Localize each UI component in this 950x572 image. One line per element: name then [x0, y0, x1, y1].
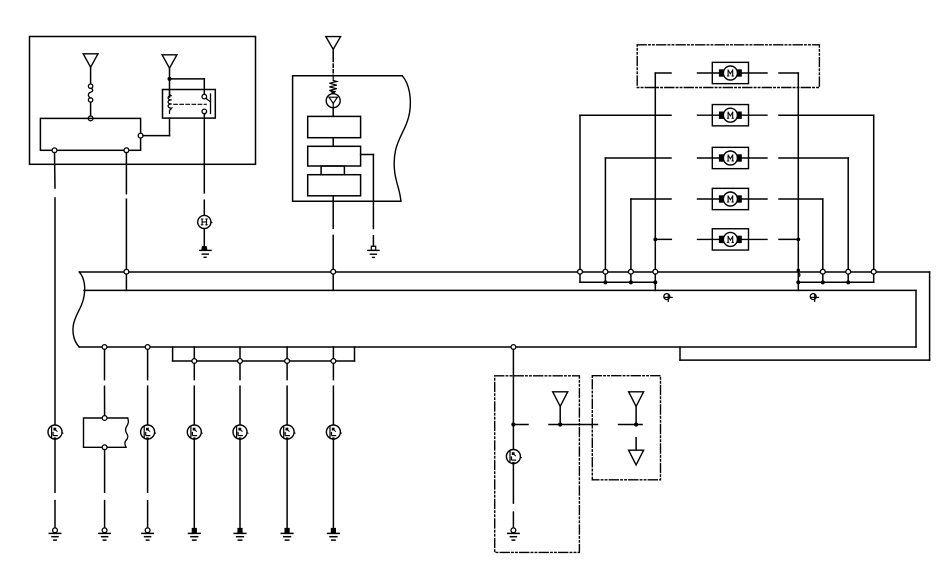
wire: bulb to ground (x=513) [512, 464, 514, 528]
wire segment (right unit row) [619, 424, 642, 426]
comb terminal circle [192, 359, 197, 364]
wire x=240 lower [239, 439, 241, 528]
wire: M4 left stub [631, 198, 671, 200]
comb terminal circle [238, 359, 243, 364]
harness top line [79, 271, 929, 273]
strip dot [653, 280, 657, 284]
terminal circle (sub-box top) [88, 116, 93, 121]
wire: triangle to row [559, 406, 561, 424]
frame ground symbol G (right) [810, 294, 818, 302]
wire: dot to bulb (x=513) [512, 427, 514, 450]
motor symbol (blower) [326, 94, 340, 108]
strip dot [796, 280, 800, 284]
relay armature link [206, 98, 210, 101]
comb tooth [286, 347, 288, 359]
relay coil [168, 90, 172, 114]
wire stub right of dot [513, 424, 528, 426]
wire: triangle to breaker [90, 67, 92, 84]
wire: M2 left stub [580, 114, 671, 116]
junction dot (x=560) [558, 422, 562, 426]
comb tooth [193, 347, 195, 359]
bulb/socket (x=55) [48, 425, 63, 440]
wire: block3 to harness [332, 196, 334, 270]
wire segment (switch row) [549, 424, 598, 426]
wire: M1 right stub [779, 72, 798, 74]
relay contact (bottom) [202, 109, 207, 115]
bulb/socket (x=194) [187, 425, 202, 440]
motor M1 (power window) [698, 62, 768, 83]
connector circle (x=580) [578, 269, 583, 274]
junction strip (right group) [798, 281, 873, 283]
relay box [163, 90, 216, 119]
frame ground symbol G (left) [664, 294, 672, 302]
dashed wire into blower box [332, 59, 334, 76]
wire x=333 upper [332, 363, 334, 425]
comb connector frame [173, 347, 355, 361]
wire x=194 upper [193, 363, 195, 425]
comb tooth [239, 347, 241, 359]
harness step [679, 347, 681, 360]
tick x=580 [579, 274, 581, 282]
connector circle (x=655) [653, 269, 658, 274]
wire x=104 upper [104, 349, 106, 415]
vertical wire x=874 [873, 115, 875, 269]
harness inner right edge [915, 290, 917, 347]
wire: motor to block1 [332, 108, 334, 117]
circuit breaker [88, 84, 92, 102]
wire: to inner line (x=333) [332, 274, 334, 290]
power triangle (switch box) [553, 392, 568, 407]
power feed triangle (blower) [326, 37, 341, 50]
combination switch / control unit box (top-left) [30, 37, 256, 165]
tick x=874 [873, 274, 875, 282]
motor M4 [698, 188, 768, 209]
harness outer right edge [929, 272, 931, 360]
wire: M5 left stub [655, 238, 671, 240]
ground (x=513, ring terminal) [508, 528, 519, 540]
control block 2 [308, 146, 361, 166]
wire x=287 lower [286, 439, 288, 528]
wire below dot (broken) [635, 438, 637, 451]
harness torn left edge [73, 272, 85, 347]
wire: M4 right stub [779, 198, 823, 200]
terminal circle (unit bottom) [102, 445, 107, 450]
tick x=631 [630, 274, 632, 282]
motor M2 [698, 105, 768, 126]
ground (x=240) [234, 528, 246, 540]
terminal circle (sub-box right edge) [138, 133, 143, 138]
connector circle (x=874) [871, 269, 876, 274]
vertical wire x=823 [822, 199, 824, 269]
dash-dot enclosure (motor 1) [637, 45, 819, 88]
wire x=287 upper [286, 363, 288, 425]
junction dot (x=513) [511, 422, 515, 426]
wire: triangle to junction [169, 68, 171, 79]
wire: harness to switch (x=513) [512, 349, 514, 424]
motor M5 [698, 229, 768, 250]
strip dot [846, 280, 850, 284]
junction dot [168, 77, 172, 81]
terminal circle (sub-box bottom left) [52, 148, 57, 153]
sub-unit box [40, 118, 140, 150]
dash-dot box (switch assembly) [495, 376, 580, 553]
harness inner line [84, 289, 916, 291]
blower unit box (torn right edge) [293, 76, 411, 202]
wire x=194 lower [193, 439, 195, 528]
wire stub below triangle [332, 49, 334, 57]
wire x=55 lower [54, 439, 56, 528]
wire x=333 lower [332, 439, 334, 528]
vertical wire x=580 [579, 115, 581, 269]
vertical wire x=655 [654, 73, 656, 269]
wire: breaker to sub-box [90, 102, 92, 116]
wire: M2 right stub [779, 114, 874, 116]
wire: M3 left stub [605, 157, 671, 159]
ground (horn) [200, 247, 211, 258]
connector circle (x=848) [846, 269, 851, 274]
wire: junction to contact [170, 79, 205, 95]
control block 1 [308, 116, 361, 137]
connector circle (x=333 on harness) [331, 269, 336, 274]
wire: junction to relay coil [169, 79, 171, 97]
bulb/socket (x=240) [233, 425, 248, 440]
dash-dot box (right unit) [592, 376, 660, 480]
wire: to horn (below box) [203, 164, 205, 215]
wire: triangle to row [635, 406, 637, 424]
harness outer bottom line [680, 359, 930, 361]
terminal circle (unit top) [102, 416, 107, 421]
vertical wire x=605 [604, 158, 606, 269]
wire: sub-box to harness (x=126) [125, 153, 127, 270]
junction dot (M5 right) [796, 238, 800, 242]
junction dot (M5 left) [653, 238, 657, 242]
horn H [198, 215, 212, 228]
tick x=823 [822, 274, 824, 282]
wire: horn to ground [203, 229, 205, 247]
out-arrow triangle (down) [629, 450, 644, 465]
wire x=148 upper [147, 349, 149, 425]
wire: relay contact down [203, 114, 205, 165]
wire: M1 left stub [655, 72, 671, 74]
tick x=655 [654, 274, 656, 290]
wire: ground drop below box [372, 201, 374, 246]
wire: block2 to ground drop [361, 155, 374, 202]
connector circle (x=126 on harness) [124, 269, 129, 274]
connector circle (x=513 on harness bottom) [511, 345, 516, 350]
connector circle (x=148 on harness bottom) [145, 345, 150, 350]
junction dot (x=636) [634, 422, 638, 426]
strip dot [821, 280, 825, 284]
ground (x=148, ring terminal) [142, 528, 153, 540]
connector circle (x=823) [820, 269, 825, 274]
vertical wire x=631 [630, 199, 632, 269]
wire x=148 lower [147, 439, 149, 528]
terminal circle (sub-box bottom right) [124, 148, 129, 153]
relay actuation dashed line [174, 103, 206, 105]
comb terminal circle [285, 359, 290, 364]
resistor (blower) [329, 76, 336, 94]
connector circle (x=605) [603, 269, 608, 274]
ground (x=287) [281, 528, 293, 540]
ground (x=333) [328, 528, 340, 540]
junction strip (left group) [580, 281, 655, 283]
ground (x=55, ring terminal) [49, 528, 60, 540]
power feed triangle (left) [83, 54, 98, 67]
relay armature bar [210, 94, 212, 114]
small unit box (torn right edge) [84, 418, 129, 447]
wire x=104 lower [104, 450, 106, 528]
ground (blower) [368, 246, 379, 257]
strip dot [603, 280, 607, 284]
power triangle (right unit) [629, 392, 644, 407]
wire: to inner line (x=126) [125, 274, 127, 290]
connector circle (x=631) [629, 269, 634, 274]
bulb/socket (x=513) [506, 450, 521, 465]
relay contact (top) [202, 94, 208, 99]
vertical wire x=798 [797, 73, 799, 290]
comb terminal circle [331, 359, 336, 364]
control block 3 [308, 175, 361, 196]
wire: block1 to block2 [332, 138, 334, 147]
tick x=605 [604, 274, 606, 282]
bulb/socket (x=148) [141, 425, 156, 440]
power feed triangle (right) [162, 55, 177, 68]
connector circle (x=104 on harness bottom) [102, 345, 107, 350]
wire: M3 right stub [779, 157, 848, 159]
wire: relay coil to sub-box [143, 118, 170, 136]
block connector rect [321, 166, 344, 175]
vertical wire x=848 [847, 158, 849, 269]
wire: sub-box to bulb (x=55) [54, 153, 57, 426]
bulb/socket (x=333) [326, 425, 341, 440]
tick x=848 [847, 274, 849, 282]
bulb/socket (x=287) [280, 425, 295, 440]
crossover hop (x=798) [797, 269, 800, 277]
strip dot [629, 280, 633, 284]
ground (x=104, ring terminal) [99, 528, 110, 540]
harness bottom line [79, 346, 916, 348]
motor M3 [698, 147, 768, 168]
wire: M5 right stub [779, 238, 798, 240]
comb tooth [332, 347, 334, 359]
ground (x=194) [189, 528, 201, 540]
wire x=240 upper [239, 363, 241, 425]
